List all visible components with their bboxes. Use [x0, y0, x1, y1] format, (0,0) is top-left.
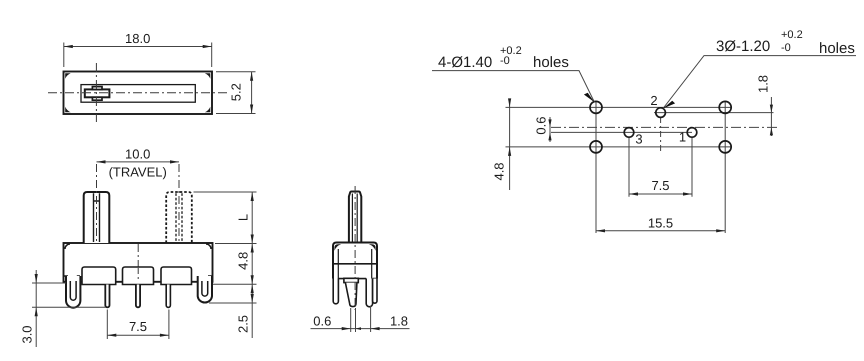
- front body corner divot right: [206, 244, 211, 249]
- side body corner mark right: [369, 244, 376, 251]
- left snap-in foot (hook): [66, 276, 80, 308]
- dimension 4.8 (front): [213, 244, 257, 285]
- terminal hole 3: [624, 128, 634, 138]
- right snap-in foot (hook): [198, 276, 212, 303]
- side right leg second wall: [373, 279, 377, 304]
- front body outline: [64, 243, 213, 282]
- svg-text:L: L: [236, 214, 251, 221]
- hole1 vertical: [691, 138, 693, 197]
- svg-text:holes: holes: [533, 54, 569, 71]
- side body bottom line: [338, 278, 376, 280]
- front body corner divot left: [65, 244, 70, 249]
- side body corner mark left: [334, 244, 341, 251]
- dimension 18.0: [64, 43, 212, 68]
- corner relief mark top-right: [205, 73, 211, 79]
- dimension 0.6 (pcb): [549, 117, 551, 142]
- centerline through middle tab: [137, 268, 139, 279]
- svg-text:-0: -0: [781, 42, 791, 54]
- dimension 7.5 (front): [107, 310, 169, 340]
- right actuator inner ribs dashed: [176, 193, 182, 242]
- left actuator inner ribs: [94, 193, 100, 242]
- middle insulator tab: [123, 267, 154, 285]
- side middle wedge pin taper: [345, 283, 357, 307]
- right column vertical: [724, 101, 726, 233]
- svg-text:3Ø-1.20: 3Ø-1.20: [716, 38, 770, 55]
- terminal hole 1: [687, 128, 697, 138]
- pattern horizontal centerline: [551, 126, 779, 128]
- left foot wall lines inside body: [67, 276, 80, 282]
- holes 3-1 row line: [551, 131, 692, 133]
- left column vertical: [595, 101, 597, 233]
- svg-text:7.5: 7.5: [129, 319, 147, 334]
- svg-text:1.8: 1.8: [390, 314, 408, 329]
- side view centerline: [354, 186, 356, 310]
- dimension 1.8 (pcb): [770, 97, 772, 136]
- bottom mounting-hole row line: [506, 146, 731, 148]
- right foot inner slot: [202, 281, 208, 296]
- svg-text:4-Ø1.40: 4-Ø1.40: [438, 54, 492, 71]
- svg-text:-0: -0: [500, 55, 510, 67]
- svg-text:(TRAVEL): (TRAVEL): [109, 165, 167, 180]
- top view body outline: [64, 72, 213, 115]
- hole2 vertical dash: [660, 117, 662, 152]
- svg-text:7.5: 7.5: [651, 178, 669, 193]
- svg-text:15.5: 15.5: [648, 215, 673, 230]
- dimension 3.0: [32, 270, 106, 347]
- svg-text:1: 1: [679, 130, 686, 145]
- svg-text:4.8: 4.8: [236, 252, 251, 270]
- dimension 4.8 (pcb): [509, 99, 511, 190]
- svg-text:2: 2: [650, 93, 657, 108]
- dimension 10.0 (TRAVEL): [97, 161, 180, 163]
- hole3 vertical: [628, 138, 630, 197]
- svg-text:0.6: 0.6: [534, 117, 549, 135]
- mounting hole bottom-left: [590, 141, 602, 153]
- top mounting-hole row line: [506, 106, 731, 108]
- side stem actuator: [349, 192, 361, 244]
- svg-text:4.8: 4.8: [492, 162, 507, 180]
- svg-text:3.0: 3.0: [20, 325, 35, 343]
- left actuator centerline: [96, 164, 98, 242]
- right insulator tab: [161, 267, 192, 285]
- corner relief mark bottom-left: [65, 107, 71, 113]
- front view center dash-dot in body: [137, 244, 139, 279]
- right actuator knob (phantom position, dashed): [166, 192, 192, 243]
- side left leg: [333, 279, 338, 304]
- left actuator knob: [84, 192, 110, 243]
- terminal pin 1 (left): [105, 285, 109, 308]
- svg-text:18.0: 18.0: [125, 31, 150, 46]
- top view knob: [85, 89, 110, 97]
- top view slot: [81, 85, 195, 103]
- hole2 row line: [654, 112, 774, 114]
- front body bottom-right step notch: [209, 276, 213, 282]
- mounting hole top-left: [590, 101, 602, 113]
- corner relief mark top-left: [65, 73, 71, 79]
- dimension L: [194, 192, 257, 244]
- svg-text:5.2: 5.2: [229, 83, 244, 101]
- top view knob bottom tab: [92, 97, 102, 100]
- side middle wedge pin top bar: [344, 278, 358, 282]
- svg-text:0.6: 0.6: [313, 314, 331, 329]
- dimension 7.5 (pcb): [629, 193, 692, 195]
- side body mid line: [334, 263, 376, 265]
- top view knob top tab: [92, 87, 102, 90]
- svg-text:10.0: 10.0: [125, 146, 150, 161]
- side leg inner verticals: [338, 249, 371, 279]
- svg-text:+0.2: +0.2: [781, 29, 803, 41]
- corner relief mark bottom-right: [205, 107, 211, 113]
- leader 4-dia1.40 holes: [432, 71, 595, 103]
- top view horizontal centerline: [48, 92, 227, 94]
- terminal hole 2: [656, 108, 666, 118]
- side body: [333, 243, 377, 279]
- leader 3dia-1.20 holes: [663, 56, 856, 109]
- dimensions 0.6 / 1.8 (side view): [311, 306, 410, 332]
- dimension 15.5 (pcb): [596, 230, 725, 232]
- side right leg outer: [366, 279, 372, 307]
- right actuator centerline: [178, 164, 180, 242]
- front body bottom-left step notch: [64, 276, 68, 282]
- terminal pin 3 (right): [166, 285, 170, 308]
- svg-text:holes: holes: [819, 40, 855, 57]
- top view vertical centerline: [95, 63, 97, 122]
- mounting hole top-right: [719, 101, 731, 113]
- svg-text:3: 3: [635, 132, 642, 147]
- dimension 5.2: [216, 72, 256, 114]
- svg-text:1.8: 1.8: [756, 75, 771, 93]
- dimension 2.5: [209, 284, 257, 338]
- right foot wall lines inside body: [198, 276, 211, 282]
- mounting hole bottom-right: [719, 141, 731, 153]
- svg-text:2.5: 2.5: [236, 315, 251, 333]
- left foot inner slot: [70, 281, 76, 300]
- side stem inner ribs: [352, 194, 357, 243]
- terminal pin 2 (middle): [136, 285, 140, 308]
- left insulator tab: [82, 267, 116, 285]
